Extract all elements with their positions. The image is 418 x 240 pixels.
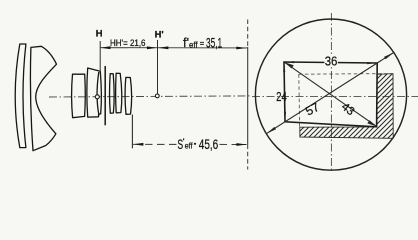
svg-text:S: S — [177, 138, 183, 152]
svg-text:45,6: 45,6 — [199, 136, 219, 152]
svg-text:eff: eff — [185, 141, 194, 151]
svg-text:35,1: 35,1 — [206, 36, 222, 51]
svg-text:=: = — [200, 39, 205, 48]
svg-text:HH'= 21,6: HH'= 21,6 — [110, 38, 146, 48]
svg-text:H': H' — [155, 28, 164, 39]
svg-text:eff: eff — [189, 39, 198, 49]
svg-text:36: 36 — [325, 54, 338, 69]
svg-text:H: H — [96, 27, 103, 38]
svg-text:24: 24 — [276, 91, 287, 105]
